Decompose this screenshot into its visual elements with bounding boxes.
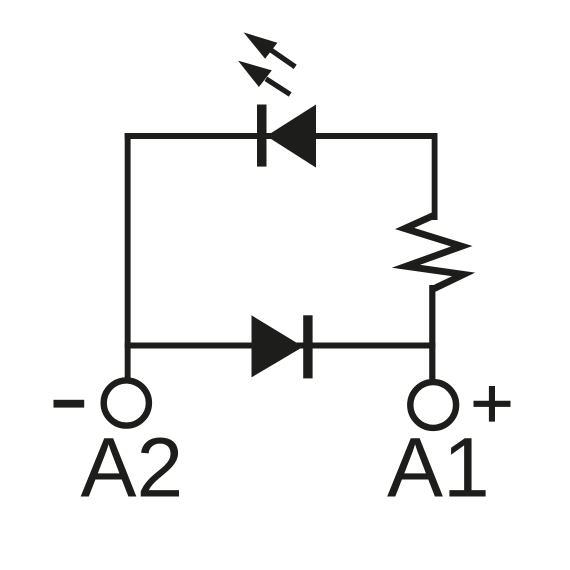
wire right upper bbox=[432, 133, 438, 220]
svg-text:A2: A2 bbox=[81, 420, 184, 514]
wire top bbox=[125, 133, 438, 139]
LED emission arrow 2 bbox=[238, 61, 290, 95]
wire left bbox=[125, 133, 131, 378]
diode triangle bbox=[252, 315, 304, 377]
terminal circle A1 bbox=[410, 382, 456, 428]
minus polarity mark bbox=[54, 400, 85, 408]
LED triangle bbox=[266, 105, 316, 168]
svg-text:A1: A1 bbox=[387, 420, 490, 514]
resistor R zigzag bbox=[405, 215, 464, 290]
wire bottom bbox=[125, 343, 436, 349]
terminal circle A2 bbox=[104, 380, 149, 425]
wire right lower bbox=[429, 285, 435, 380]
LED emission arrow 1 bbox=[244, 32, 296, 66]
LED cathode bar bbox=[257, 105, 267, 167]
diode cathode bar bbox=[303, 315, 312, 378]
plus polarity mark bbox=[474, 386, 511, 422]
